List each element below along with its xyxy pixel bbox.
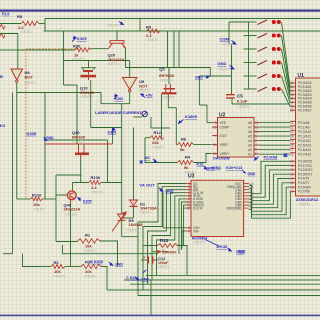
svg-text:R2: R2	[54, 260, 60, 265]
svg-text:<TEXT>: <TEXT>	[107, 23, 120, 27]
svg-text:K3: K3	[0, 123, 6, 128]
svg-text:<TEXT>: <TEXT>	[91, 190, 104, 194]
svg-text:GND: GND	[46, 136, 54, 140]
svg-text:R110: R110	[32, 193, 42, 198]
svg-text:GND: GND	[166, 189, 174, 193]
svg-text:IOUT: IOUT	[220, 134, 228, 138]
svg-text:32: 32	[290, 108, 294, 112]
svg-text:P2.4/A12: P2.4/A12	[298, 139, 311, 143]
svg-text:P2.0/A8: P2.0/A8	[264, 155, 278, 159]
svg-text:R12: R12	[154, 130, 162, 135]
svg-text:<TEXT>: <TEXT>	[152, 145, 165, 149]
svg-text:5k: 5k	[180, 147, 185, 152]
svg-text:<TEXT>: <TEXT>	[218, 67, 231, 71]
svg-text:6: 6	[255, 148, 257, 152]
svg-text:A3: A3	[248, 143, 252, 147]
svg-text:25: 25	[290, 139, 294, 143]
svg-text:GND: GND	[218, 61, 227, 66]
svg-text:R100: R100	[91, 175, 101, 180]
svg-text:<TEXT>: <TEXT>	[72, 140, 85, 144]
svg-text:MC: MC	[145, 156, 151, 160]
svg-text:P2.1/A9: P2.1/A9	[298, 125, 310, 129]
svg-text:21: 21	[290, 121, 294, 125]
svg-text:15: 15	[213, 143, 217, 147]
svg-text:<TEXT>: <TEXT>	[84, 274, 97, 278]
svg-text:LASER DIODE CURRENT: LASER DIODE CURRENT	[95, 110, 142, 115]
svg-text:K305: K305	[83, 200, 92, 204]
svg-text:26: 26	[290, 143, 294, 147]
svg-text:17: 17	[290, 190, 294, 194]
svg-text:P3.7/RD: P3.7/RD	[298, 190, 311, 194]
svg-text:AT89C51RC2: AT89C51RC2	[296, 198, 318, 202]
svg-text:K30+O13: K30+O13	[226, 166, 242, 170]
svg-text:COMP: COMP	[220, 125, 230, 129]
svg-text:NOT: NOT	[25, 75, 34, 80]
svg-text:VIN-: VIN-	[193, 229, 199, 233]
svg-text:R13: R13	[160, 238, 169, 243]
svg-text:<TEXT>: <TEXT>	[162, 96, 175, 100]
svg-text:VEE: VEE	[220, 121, 226, 125]
svg-text:<TEXT>: <TEXT>	[24, 81, 37, 85]
svg-text:9: 9	[255, 134, 257, 138]
svg-text:7: 7	[188, 229, 190, 233]
svg-text:<TEXT>: <TEXT>	[53, 274, 66, 278]
svg-text:11: 11	[255, 125, 259, 129]
svg-text:<TEXT>: <TEXT>	[298, 203, 311, 207]
svg-text:B: B	[0, 74, 3, 79]
svg-text:24k: 24k	[152, 140, 159, 145]
svg-text:K305: K305	[27, 131, 37, 136]
svg-text:<TEXT>: <TEXT>	[139, 211, 152, 215]
svg-text:11: 11	[250, 206, 254, 210]
svg-text:<TEXT>: <TEXT>	[126, 229, 139, 233]
svg-text:<TEXT>: <TEXT>	[159, 78, 172, 82]
svg-text:2N2222A: 2N2222A	[64, 206, 81, 211]
svg-text:<TEXT>: <TEXT>	[157, 265, 170, 269]
svg-text:4: 4	[215, 134, 217, 138]
svg-text:5k: 5k	[184, 165, 189, 170]
svg-text:K1805: K1805	[185, 114, 198, 119]
svg-text:R9: R9	[146, 24, 152, 29]
svg-text:U2: U2	[219, 113, 226, 119]
svg-text:1N4148: 1N4148	[129, 222, 144, 227]
svg-text:23: 23	[290, 130, 294, 134]
svg-text:P2.0/A8: P2.0/A8	[298, 121, 310, 125]
svg-text:K10: K10	[197, 162, 204, 166]
svg-text:10: 10	[255, 130, 259, 134]
svg-text:R4: R4	[185, 154, 191, 159]
svg-text:R6: R6	[181, 136, 187, 141]
svg-text:COM: COM	[220, 36, 230, 41]
svg-text:R8: R8	[17, 14, 23, 19]
svg-text:A7: A7	[248, 125, 252, 129]
svg-text:<TEXT>: <TEXT>	[20, 30, 33, 34]
svg-text:U1: U1	[298, 73, 305, 79]
svg-text:C K30: C K30	[126, 276, 137, 280]
svg-text:IRF9630: IRF9630	[159, 73, 175, 78]
svg-text:10k: 10k	[85, 269, 92, 274]
svg-text:<TEXT>: <TEXT>	[65, 213, 78, 217]
svg-text:VREF-: VREF-	[220, 143, 230, 147]
svg-text:+5V: +5V	[146, 92, 154, 97]
svg-text:<TEXT>: <TEXT>	[146, 38, 159, 42]
svg-text:8: 8	[255, 139, 257, 143]
svg-text:DB7(MSB): DB7(MSB)	[226, 206, 241, 210]
svg-text:P2.7/A15: P2.7/A15	[298, 152, 311, 156]
svg-text:<TEXT>: <TEXT>	[84, 249, 97, 253]
svg-text:VREF+: VREF+	[220, 152, 231, 156]
svg-text:P1.0: P1.0	[2, 12, 9, 16]
svg-text:2.2: 2.2	[91, 185, 97, 190]
svg-text:19: 19	[186, 206, 190, 210]
svg-text:GND: GND	[248, 172, 256, 176]
svg-text:DAC0808: DAC0808	[213, 157, 230, 161]
svg-text:A2: A2	[248, 148, 252, 152]
svg-text:CLK R: CLK R	[193, 206, 203, 210]
svg-text:16: 16	[213, 125, 217, 129]
svg-text:A6: A6	[248, 130, 252, 134]
svg-text:1N4007: 1N4007	[165, 250, 177, 254]
svg-text:K305: K305	[77, 36, 87, 41]
svg-text:7: 7	[255, 143, 257, 147]
svg-text:P2.6/A14: P2.6/A14	[298, 148, 311, 152]
svg-text:GND: GND	[195, 75, 203, 79]
svg-text:VA OUT: VA OUT	[140, 182, 156, 187]
svg-text:R30: R30	[73, 44, 81, 49]
svg-text:10k: 10k	[54, 269, 61, 274]
svg-text:<TEXT>: <TEXT>	[80, 95, 93, 99]
svg-text:10k: 10k	[85, 243, 92, 248]
svg-text:14: 14	[213, 152, 217, 156]
svg-text:P0.7/AD7: P0.7/AD7	[298, 108, 312, 112]
svg-text:28: 28	[290, 152, 294, 156]
svg-text:12: 12	[255, 121, 259, 125]
svg-text:A4: A4	[248, 139, 252, 143]
svg-text:P2.2/A10: P2.2/A10	[298, 130, 311, 134]
svg-text:<TEXT>: <TEXT>	[107, 62, 120, 66]
svg-text:<TEXT>: <TEXT>	[72, 57, 85, 61]
svg-text:3: 3	[215, 121, 217, 125]
svg-text:5: 5	[255, 152, 257, 156]
svg-text:<TEXT>: <TEXT>	[33, 208, 46, 212]
svg-text:<TEXT>: <TEXT>	[222, 42, 235, 46]
svg-text:B K305: B K305	[90, 260, 103, 264]
svg-text:R1: R1	[85, 233, 91, 238]
svg-text:27: 27	[290, 148, 294, 152]
svg-text:GND: GND	[141, 277, 149, 281]
svg-text:0.1uF: 0.1uF	[237, 98, 248, 103]
svg-text:24: 24	[290, 134, 294, 138]
svg-text:A8: A8	[248, 121, 252, 125]
svg-text:A5: A5	[248, 134, 252, 138]
svg-text:GND: GND	[236, 250, 244, 254]
svg-text:P2.5/A13: P2.5/A13	[298, 143, 311, 147]
svg-text:<TEXT>: <TEXT>	[238, 105, 251, 109]
svg-text:D K30: D K30	[217, 245, 228, 249]
svg-text:<TEXT>: <TEXT>	[193, 241, 206, 245]
svg-text:P2.3/A11: P2.3/A11	[298, 134, 311, 138]
svg-text:10k: 10k	[33, 202, 40, 207]
svg-text:<TEXT>: <TEXT>	[183, 170, 196, 174]
svg-text:GND: GND	[115, 262, 123, 266]
svg-text:22: 22	[290, 125, 294, 129]
svg-text:A1: A1	[248, 152, 252, 156]
svg-text:Q5: Q5	[159, 67, 165, 72]
